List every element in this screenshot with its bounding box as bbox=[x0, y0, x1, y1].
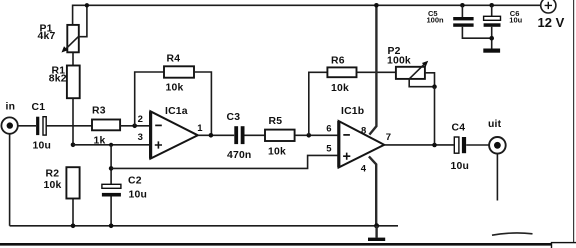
node C2 on ground rail bbox=[109, 224, 114, 229]
node C5 C6 ground tie bbox=[489, 36, 494, 41]
svg-text:C2: C2 bbox=[128, 175, 142, 186]
svg-text:100n: 100n bbox=[427, 16, 445, 25]
svg-text:10u: 10u bbox=[451, 161, 470, 172]
svg-text:7: 7 bbox=[386, 132, 391, 143]
svg-text:R2: R2 bbox=[46, 168, 60, 179]
wire C2 to ground rail bbox=[110, 197, 112, 226]
wire output jack stub bbox=[496, 154, 498, 201]
svg-text:10k: 10k bbox=[268, 146, 286, 157]
node bias junction A bbox=[71, 143, 76, 148]
node ground junction bbox=[374, 223, 379, 228]
svg-text:IC1b: IC1b bbox=[341, 106, 364, 117]
wire bottom ground rail bbox=[10, 225, 398, 227]
node R2 on ground rail bbox=[71, 224, 76, 229]
wire R6 left leg bbox=[309, 72, 328, 135]
svg-text:8: 8 bbox=[361, 125, 366, 136]
wire input jack ground lead bbox=[9, 134, 11, 226]
svg-text:470n: 470n bbox=[227, 150, 251, 161]
capacitor C3 bbox=[227, 112, 252, 161]
node C2 branch on bias wire bbox=[109, 143, 113, 147]
svg-text:10u: 10u bbox=[33, 140, 52, 151]
wire top supply rail bbox=[73, 5, 541, 25]
resistor R2 bbox=[44, 167, 80, 198]
node R5 R6 pin6 junction bbox=[307, 133, 312, 138]
svg-text:R5: R5 bbox=[269, 116, 283, 127]
wire IC1a output to C3 bbox=[198, 134, 234, 136]
supply terminal 12V bbox=[538, 0, 565, 30]
svg-text:10k: 10k bbox=[331, 83, 349, 94]
svg-text:6: 6 bbox=[326, 124, 331, 135]
wire R4 feedback left leg bbox=[135, 72, 164, 126]
svg-text:10k: 10k bbox=[44, 180, 62, 191]
wire R2 to ground rail bbox=[72, 199, 74, 226]
wire R3 to IC1a pin2 bbox=[120, 125, 150, 127]
node supply on rail bbox=[374, 3, 379, 8]
node output junction bbox=[432, 143, 437, 148]
svg-text:100k: 100k bbox=[387, 56, 411, 67]
potentiometer P2 bbox=[387, 46, 435, 87]
svg-text:in: in bbox=[6, 102, 16, 113]
wire bias node down to C2 bbox=[110, 145, 112, 184]
node IC1a output junction bbox=[209, 133, 214, 138]
wire C3 to R5 bbox=[245, 134, 266, 136]
ground symbol supply bbox=[483, 49, 500, 53]
ground symbol bbox=[368, 226, 385, 241]
svg-text:4: 4 bbox=[361, 163, 367, 174]
capacitor C2 bbox=[102, 175, 147, 200]
node junction P1 wiper on rail bbox=[85, 3, 89, 7]
right border line bbox=[573, 0, 575, 248]
wire P2 down to output node bbox=[434, 87, 436, 145]
resistor R5 bbox=[265, 116, 295, 158]
wire C4 to output connector bbox=[466, 144, 489, 146]
capacitor C4 bbox=[451, 123, 470, 173]
node IC1a inverting input junction bbox=[132, 124, 137, 129]
svg-text:12 V: 12 V bbox=[538, 15, 565, 30]
svg-text:C4: C4 bbox=[452, 123, 466, 134]
capacitor C1 bbox=[32, 102, 52, 152]
svg-text:5: 5 bbox=[326, 143, 332, 154]
svg-text:uit: uit bbox=[488, 119, 502, 130]
wire R1 down to bias node bbox=[72, 98, 74, 145]
node P2 wiper junction bbox=[432, 84, 437, 89]
svg-text:R4: R4 bbox=[167, 54, 181, 65]
node C6 on rail bbox=[489, 3, 494, 8]
svg-text:10u: 10u bbox=[129, 189, 148, 200]
wire IC1b pin4 to ground bbox=[369, 156, 376, 225]
wire bias node to IC1a pin3 bbox=[73, 144, 150, 146]
svg-text:3: 3 bbox=[138, 132, 143, 143]
svg-text:1: 1 bbox=[197, 123, 203, 134]
wire C1 to R3 bbox=[46, 125, 92, 127]
resistor R3 bbox=[92, 105, 120, 146]
resistor R1 bbox=[49, 65, 80, 98]
svg-text:10u: 10u bbox=[509, 16, 522, 25]
wire R4 feedback right leg bbox=[194, 72, 211, 135]
caption box corner bbox=[552, 243, 576, 248]
op-amp IC1a bbox=[138, 106, 204, 159]
svg-text:2: 2 bbox=[138, 114, 143, 125]
svg-text:IC1a: IC1a bbox=[165, 106, 188, 117]
resistor R6 bbox=[327, 56, 356, 94]
output connector uit bbox=[488, 119, 506, 154]
svg-text:C1: C1 bbox=[32, 102, 46, 113]
node C2 top / IC1b pin5 takeoff bbox=[109, 166, 114, 171]
wire R5 to IC1b pin6 bbox=[295, 134, 338, 136]
svg-text:C3: C3 bbox=[227, 112, 241, 123]
svg-text:8k2: 8k2 bbox=[49, 73, 67, 84]
node C5 on rail bbox=[460, 3, 465, 8]
svg-text:R6: R6 bbox=[331, 56, 345, 67]
op-amp IC1b bbox=[326, 106, 391, 174]
wire supply drop to IC1b pin8 bbox=[369, 5, 376, 134]
input connector in bbox=[1, 102, 17, 134]
scan artifact swoosh bbox=[492, 233, 533, 235]
svg-text:10k: 10k bbox=[166, 82, 184, 93]
potentiometer P1 bbox=[38, 5, 87, 52]
capacitor C5 bbox=[427, 5, 492, 38]
wire P1 to R1 bbox=[72, 52, 74, 65]
capacitor C6 bbox=[484, 5, 523, 48]
svg-text:1k: 1k bbox=[94, 136, 106, 147]
svg-text:4k7: 4k7 bbox=[38, 31, 56, 42]
wire R6 to P2 bbox=[357, 71, 396, 73]
wire long run to IC1b pin5 bbox=[111, 155, 338, 168]
resistor R4 bbox=[164, 54, 194, 94]
wire input to C1 bbox=[18, 125, 36, 127]
svg-text:R3: R3 bbox=[92, 105, 106, 116]
bottom caption rule bbox=[0, 243, 576, 246]
wire IC1b output to C4 bbox=[384, 144, 454, 146]
